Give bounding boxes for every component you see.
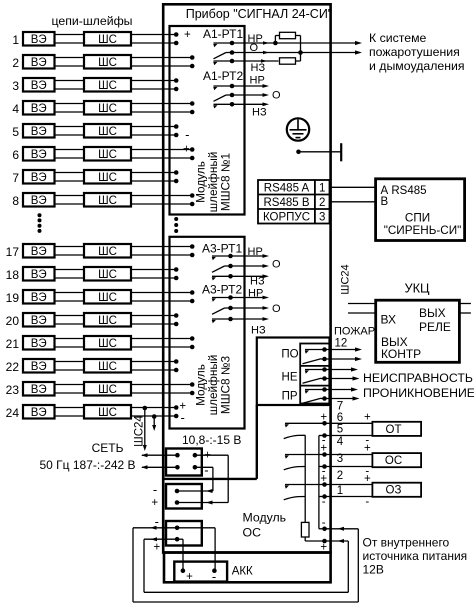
- labels НР / О / НЗ of A1-РТ1: [248, 33, 266, 74]
- svg-text:ШС: ШС: [98, 361, 117, 373]
- svg-text:ШС: ШС: [98, 246, 117, 258]
- loop channel 24: detector ВЭ and loop ШС: [6, 405, 179, 420]
- label цепи-шлейфы: [51, 14, 132, 28]
- wire external 12V minus loop: [133, 526, 358, 602]
- loop channel 8: detector ВЭ and loop ШС: [12, 193, 194, 208]
- battery compartment box: [164, 553, 331, 583]
- svg-text:4: 4: [12, 102, 19, 116]
- protective earth symbol: [287, 118, 309, 140]
- svg-text:и дымоудаления: и дымоудаления: [369, 59, 465, 73]
- output section box (ПО/НЕ/ПР): [257, 338, 330, 406]
- svg-text:А1-РТ2: А1-РТ2: [203, 69, 243, 83]
- svg-text:ВЭ: ВЭ: [31, 57, 47, 69]
- wires to ОТ box: [325, 423, 373, 435]
- svg-text:+: +: [184, 29, 191, 41]
- wire battery +: [177, 539, 183, 571]
- svg-text:+: +: [153, 541, 160, 553]
- polarity marks at output devices: [364, 411, 371, 508]
- svg-text:17: 17: [6, 245, 20, 259]
- text От внутреннего источника питания 12В: [363, 536, 468, 577]
- svg-text:ПРОНИКНОВЕНИЕ: ПРОНИКНОВЕНИЕ: [363, 386, 474, 400]
- svg-text:-: -: [185, 127, 189, 142]
- svg-text:21: 21: [6, 337, 20, 351]
- module A3 polarity marks: [179, 401, 186, 425]
- svg-text:-: -: [204, 463, 208, 478]
- loop channel 17: detector ВЭ and loop ШС: [6, 244, 195, 259]
- svg-text:КОРПУС: КОРПУС: [263, 212, 310, 224]
- svg-text:+: +: [364, 473, 371, 485]
- svg-text:СЕТЬ: СЕТЬ: [92, 441, 124, 455]
- resistor R2 (НЗ branch): [280, 53, 301, 65]
- svg-text:НЕИСПРАВНОСТЬ: НЕИСПРАВНОСТЬ: [363, 371, 473, 385]
- svg-text:5: 5: [12, 125, 19, 139]
- output arrows to extinguishing system: [355, 41, 362, 55]
- svg-text:4: 4: [337, 436, 344, 448]
- wire RS485 A to СПИ: [330, 186, 376, 188]
- svg-text:ШС: ШС: [98, 172, 117, 184]
- svg-text:ШС: ШС: [98, 292, 117, 304]
- board power connector block: [166, 484, 202, 509]
- svg-text:12: 12: [335, 338, 348, 350]
- module U-A3 МШС8 №3 box: [170, 237, 245, 429]
- svg-text:ВЭ: ВЭ: [31, 407, 47, 419]
- svg-text:3: 3: [12, 79, 19, 93]
- relay A3-РТ2 contacts НР/О/НЗ: [212, 295, 269, 323]
- svg-text:ШС: ШС: [98, 407, 117, 419]
- wires to ОЗ box: [325, 485, 373, 497]
- svg-text:ВЭ: ВЭ: [31, 246, 47, 258]
- svg-text:+: +: [183, 144, 190, 156]
- svg-text:О: О: [272, 303, 281, 315]
- svg-text:НЗ: НЗ: [250, 276, 265, 288]
- svg-text:ШС: ШС: [98, 149, 117, 161]
- svg-text:МШС8 №3: МШС8 №3: [219, 355, 233, 414]
- svg-text:ВХ: ВХ: [381, 312, 396, 326]
- minus bus: [319, 436, 325, 529]
- svg-text:УКЦ: УКЦ: [404, 280, 430, 295]
- wire НЕ upper: [325, 367, 359, 371]
- svg-text:НР: НР: [248, 246, 263, 258]
- ellipsis between channel 8 and 17 (left): [38, 213, 42, 233]
- contact ПО: [303, 347, 327, 364]
- svg-text:ВЭ: ВЭ: [31, 149, 47, 161]
- node: junction О line: [298, 50, 303, 55]
- svg-text:1: 1: [319, 183, 325, 195]
- labels ПО НЕ ПР: [281, 349, 298, 403]
- loop channel 6: detector ВЭ and loop ШС: [12, 147, 194, 162]
- svg-text:НЗ: НЗ: [251, 325, 266, 337]
- battery connector polarity marks: [153, 514, 160, 553]
- svg-text:-: -: [153, 482, 157, 497]
- svg-text:ВЭ: ВЭ: [31, 103, 47, 115]
- label ШС24 (loop 24 feed): [134, 406, 157, 451]
- wire ПР upper: [325, 387, 359, 391]
- main unit box Прибор СИГНАЛ 24-СИ: [163, 4, 330, 552]
- module A1 label Модуль шлейфный МШС8 №1: [194, 152, 233, 213]
- svg-text:2: 2: [12, 56, 19, 70]
- svg-text:ВЭ: ВЭ: [31, 172, 47, 184]
- svg-text:НЗ: НЗ: [251, 62, 266, 74]
- svg-text:К системе: К системе: [369, 31, 427, 45]
- svg-text:цепи-шлейфы: цепи-шлейфы: [51, 14, 132, 28]
- relay A1-РТ1 label: [203, 27, 243, 41]
- wire power supply + routed to board connector: [177, 455, 228, 504]
- svg-text:СПИ: СПИ: [405, 212, 430, 225]
- svg-text:ВЭ: ВЭ: [31, 338, 47, 350]
- svg-text:+: +: [186, 571, 193, 583]
- svg-text:3: 3: [319, 212, 325, 224]
- svg-text:НР: НР: [250, 75, 265, 87]
- svg-text:КОНТР: КОНТР: [381, 347, 421, 361]
- svg-text:ВЭ: ВЭ: [31, 315, 47, 327]
- loop channel 22: detector ВЭ and loop ШС: [6, 359, 179, 374]
- labels НР / О / НЗ of A3-РТ2: [248, 288, 281, 337]
- ellipsis between modules (inside unit): [174, 217, 178, 233]
- resistor in ОС module: [301, 522, 324, 541]
- svg-text:20: 20: [6, 314, 20, 328]
- contact ПР: [303, 387, 327, 403]
- svg-text:ШС: ШС: [98, 126, 117, 138]
- svg-text:О: О: [250, 42, 259, 54]
- svg-text:НР: НР: [248, 288, 263, 300]
- svg-text:ВЭ: ВЭ: [31, 195, 47, 207]
- svg-text:ВЭ: ВЭ: [31, 34, 47, 46]
- relay A1-РТ2 label: [203, 69, 243, 83]
- wire ПРОНИКНОВЕНИЕ: [325, 386, 474, 400]
- module U-A1 МШС8 №1 box: [170, 26, 245, 215]
- svg-text:ШС: ШС: [98, 315, 117, 327]
- wire СЕТЬ neutral: [141, 465, 177, 469]
- svg-text:24: 24: [6, 406, 20, 420]
- svg-text:РЕЛЕ: РЕЛЕ: [419, 320, 451, 334]
- svg-text:+: +: [151, 497, 158, 509]
- wire УКЦ relay outputs: [459, 304, 471, 314]
- svg-text:ШС: ШС: [98, 34, 117, 46]
- svg-text:ПР: ПР: [282, 391, 298, 403]
- external unit УКЦ: [376, 280, 460, 362]
- svg-text:ВЭ: ВЭ: [31, 80, 47, 92]
- svg-text:8: 8: [12, 194, 19, 208]
- svg-text:ВЭ: ВЭ: [31, 292, 47, 304]
- polarity marks on unit edge: [320, 411, 327, 553]
- node: junction НР line: [273, 41, 278, 46]
- contact НЕ: [303, 367, 327, 383]
- svg-text:ВЭ: ВЭ: [31, 384, 47, 396]
- RS485 pin numbers 1 2 3: [319, 183, 325, 224]
- svg-text:Прибор "СИГНАЛ 24-СИ": Прибор "СИГНАЛ 24-СИ": [186, 7, 333, 21]
- net label ШС24 (to УКЦ): [339, 264, 351, 294]
- labels НР / О / НЗ of A3-РТ1: [248, 246, 282, 288]
- svg-text:ШС: ШС: [98, 338, 117, 350]
- svg-text:А3-РТ1: А3-РТ1: [202, 242, 242, 256]
- loop channel 23: detector ВЭ and loop ШС: [6, 382, 195, 397]
- svg-text:пожаротушения: пожаротушения: [369, 45, 460, 59]
- svg-text:1: 1: [337, 485, 343, 497]
- svg-text:ОС: ОС: [385, 455, 402, 467]
- output device ОС: [372, 453, 421, 467]
- svg-text:-: -: [365, 496, 369, 508]
- svg-text:ПО: ПО: [281, 349, 298, 361]
- svg-text:ШС: ШС: [98, 195, 117, 207]
- svg-text:Модуль: Модуль: [243, 510, 287, 524]
- svg-text:10,8-:-15 В: 10,8-:-15 В: [182, 433, 241, 447]
- resistor R1 (НР branch): [275, 32, 300, 52]
- svg-text:ШС: ШС: [98, 269, 117, 281]
- svg-text:-: -: [155, 514, 159, 529]
- label АКК: [232, 566, 253, 578]
- board connector polarity marks: [151, 482, 158, 509]
- svg-text:НЕ: НЕ: [282, 372, 298, 384]
- svg-text:1: 1: [12, 33, 19, 47]
- svg-text:ОТ: ОТ: [386, 424, 402, 436]
- svg-text:RS485 A: RS485 A: [264, 183, 310, 195]
- wire СЕТЬ phase: [141, 453, 177, 457]
- text К системе пожаротушения и дымоудаления: [369, 31, 465, 73]
- svg-text:+: +: [364, 411, 371, 423]
- loop channel 1: detector ВЭ and loop ШС: [12, 32, 178, 47]
- wire external 12V plus loop: [144, 537, 348, 592]
- relay A3-РТ1 label: [202, 242, 242, 256]
- title Прибор "СИГНАЛ 24-СИ": [186, 7, 333, 21]
- svg-text:+: +: [364, 442, 371, 454]
- loop channel 4: detector ВЭ and loop ШС: [12, 101, 194, 116]
- svg-text:6: 6: [337, 412, 343, 424]
- svg-text:12В: 12В: [363, 563, 384, 577]
- svg-text:6: 6: [12, 148, 19, 162]
- battery connector block: [166, 521, 202, 546]
- svg-text:7: 7: [337, 401, 343, 413]
- svg-text:RS485 B: RS485 B: [263, 197, 309, 209]
- svg-text:МШС8 №1: МШС8 №1: [219, 153, 233, 211]
- wire RS485 B to СПИ: [330, 201, 376, 203]
- module A1 polarity marks: [183, 29, 191, 156]
- terminal dots on unit edge (outputs): [322, 421, 327, 543]
- svg-text:ШС: ШС: [98, 103, 117, 115]
- svg-text:ШС: ШС: [98, 57, 117, 69]
- svg-text:"СИРЕНЬ-СИ": "СИРЕНЬ-СИ": [384, 224, 462, 237]
- text Модуль ОС: [243, 510, 287, 539]
- svg-text:22: 22: [6, 360, 20, 374]
- wire НЕИСПРАВНОСТЬ: [325, 371, 473, 385]
- battery АКК box: [174, 562, 227, 584]
- svg-text:ОЗ: ОЗ: [386, 485, 402, 497]
- loop channel 20: detector ВЭ and loop ШС: [6, 313, 179, 328]
- svg-text:источника питания: источника питания: [363, 549, 468, 563]
- wire power supply - routed to board connector: [177, 467, 213, 493]
- svg-text:7: 7: [12, 171, 19, 185]
- module A3 label Модуль шлейфный МШС8 №3: [194, 355, 233, 416]
- text 10,8-:-15 В: [182, 433, 241, 447]
- svg-text:5: 5: [337, 424, 343, 436]
- label ПОЖАР and terminal 12: [334, 326, 375, 350]
- loop channel 21: detector ВЭ and loop ШС: [6, 336, 195, 351]
- external unit СПИ "СИРЕНЬ-СИ": [376, 179, 465, 241]
- svg-text:2: 2: [319, 197, 325, 209]
- mains polarity marks: [204, 449, 211, 477]
- svg-text:ВЭ: ВЭ: [31, 269, 47, 281]
- svg-text:-: -: [181, 410, 185, 425]
- relay contact box ПО/НЕ/ПР: [300, 344, 329, 404]
- svg-text:О: О: [272, 90, 281, 102]
- svg-text:ВЫХ: ВЫХ: [419, 306, 446, 320]
- svg-text:ВЭ: ВЭ: [31, 126, 47, 138]
- arm bus to resistor: [304, 435, 306, 522]
- text СЕТЬ 50 Гц 187-:-242 В: [39, 441, 135, 472]
- svg-text:ОС: ОС: [243, 525, 262, 539]
- chassis terminal wire: [296, 143, 341, 161]
- output device ОТ: [372, 422, 421, 436]
- relay A3-РТ1 contacts НР/О/НЗ: [212, 254, 269, 281]
- svg-text:В: В: [381, 196, 389, 208]
- wires to ОС box: [325, 455, 373, 467]
- svg-text:ПОЖАР: ПОЖАР: [334, 326, 375, 338]
- relay A1-РТ2 contacts НР/О/НЗ: [213, 84, 269, 109]
- output device ОЗ: [372, 483, 421, 497]
- svg-text:2: 2: [337, 470, 343, 482]
- labels НР / О / НЗ of A1-РТ2: [250, 75, 282, 119]
- loop channel 18: detector ВЭ and loop ШС: [6, 267, 179, 282]
- mains connector block: [166, 449, 202, 476]
- svg-text:От внутреннего: От внутреннего: [363, 536, 450, 550]
- svg-text:НЗ: НЗ: [252, 107, 267, 119]
- svg-text:ВЭ: ВЭ: [31, 361, 47, 373]
- contact for output ОЗ: [284, 485, 331, 500]
- loop channel 7: detector ВЭ and loop ШС: [12, 170, 178, 185]
- wires ПО to УКЦ контр: [325, 347, 363, 361]
- internal 12V bus wire: [164, 405, 257, 479]
- svg-text:А1-РТ1: А1-РТ1: [203, 27, 243, 41]
- svg-text:АКК: АКК: [232, 566, 253, 578]
- svg-text:19: 19: [6, 291, 20, 305]
- loop channel 5: detector ВЭ and loop ШС: [12, 124, 178, 139]
- relay A1-РТ1 contacts НР/О/НЗ: [213, 41, 358, 65]
- loop channel 2: detector ВЭ and loop ШС: [12, 55, 194, 70]
- wire battery -: [177, 528, 215, 571]
- svg-text:23: 23: [6, 383, 20, 397]
- svg-text:ШС24: ШС24: [134, 415, 146, 447]
- contact for output ОС: [284, 455, 331, 470]
- svg-text:О: О: [272, 259, 281, 271]
- svg-text:ШС24: ШС24: [339, 264, 351, 294]
- svg-text:-: -: [212, 569, 216, 584]
- contact for output ОТ: [284, 423, 331, 438]
- wire ШС24 pair into УКЦ: [348, 304, 376, 314]
- loop channel 19: detector ВЭ and loop ШС: [6, 290, 195, 305]
- svg-text:18: 18: [6, 268, 20, 282]
- svg-text:ШС: ШС: [98, 384, 117, 396]
- loop channel 3: detector ВЭ and loop ШС: [12, 78, 178, 93]
- svg-text:ШС: ШС: [98, 80, 117, 92]
- svg-text:А3-РТ2: А3-РТ2: [202, 283, 242, 297]
- terminal numbers 7..1: [337, 401, 344, 498]
- relay A3-РТ2 label: [202, 283, 242, 297]
- svg-text:50 Гц 187-:-242 В: 50 Гц 187-:-242 В: [39, 458, 135, 472]
- RS485 terminal block: [258, 180, 330, 224]
